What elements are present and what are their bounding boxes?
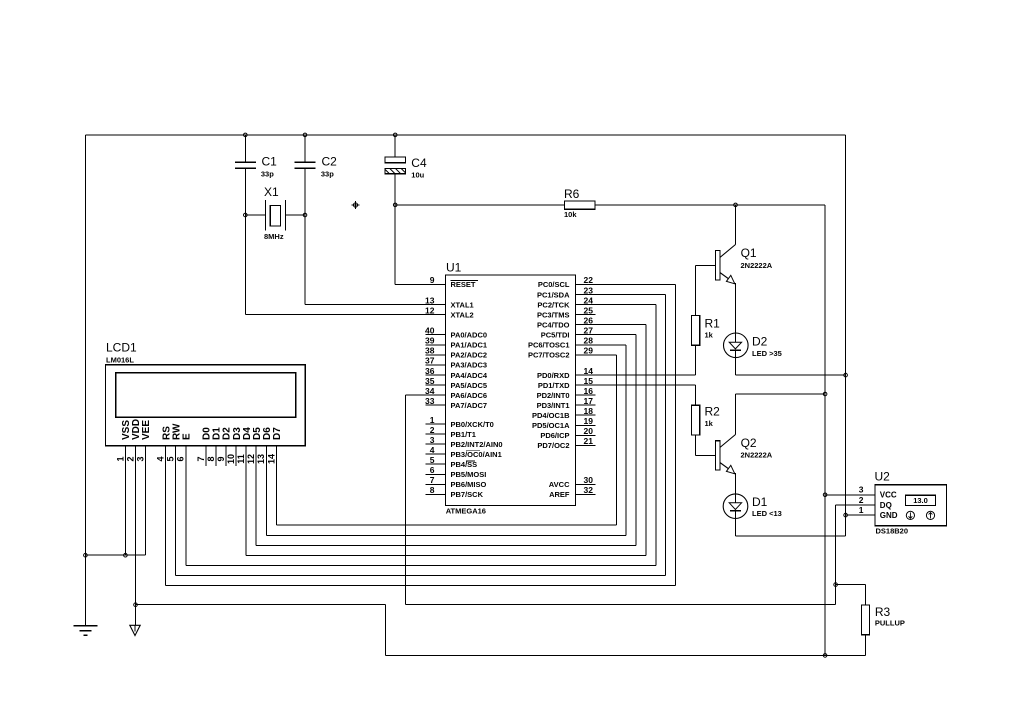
svg-text:LCD1: LCD1 [106, 341, 137, 355]
svg-text:PD2/INT0: PD2/INT0 [537, 391, 570, 400]
svg-text:24: 24 [584, 295, 594, 305]
wire Q2 collector to VCC [736, 393, 826, 395]
wire LCD VDD drop [135, 446, 137, 630]
svg-text:R2: R2 [705, 405, 721, 419]
svg-text:14: 14 [584, 366, 594, 376]
pin 25 PC3/TMS [576, 314, 596, 316]
svg-text:36: 36 [425, 366, 435, 376]
svg-text:32: 32 [584, 485, 594, 495]
wire bus D5 PC5 horizontal from chip [576, 334, 637, 336]
wire R6 to VCC corner [595, 204, 825, 206]
wire bus D4 PC4 right vertical [645, 325, 647, 556]
svg-text:PC1/SDA: PC1/SDA [537, 290, 570, 299]
svg-text:13: 13 [425, 295, 435, 305]
svg-text:XTAL2: XTAL2 [451, 310, 474, 319]
wire bus RW PC1 right vertical [665, 295, 667, 576]
pin 35 PA5/ADC5 [425, 384, 445, 386]
svg-text:9: 9 [430, 275, 435, 285]
wire R3 top to DQ [836, 584, 866, 586]
svg-text:6: 6 [176, 456, 186, 461]
svg-text:39: 39 [425, 336, 435, 346]
svg-text:10k: 10k [564, 210, 577, 219]
transistor Q2 [715, 441, 720, 470]
svg-text:PB4/SS: PB4/SS [451, 460, 478, 469]
junction X1-right [303, 213, 307, 217]
pin 3 PB2/INT2/AIN0 [425, 443, 445, 445]
svg-text:4: 4 [156, 456, 166, 461]
svg-text:XTAL1: XTAL1 [451, 300, 474, 309]
svg-text:PC0/SCL: PC0/SCL [538, 280, 570, 289]
svg-text:C4: C4 [411, 156, 427, 170]
svg-text:U2: U2 [875, 470, 891, 484]
svg-text:37: 37 [425, 356, 435, 366]
svg-text:33: 33 [425, 396, 435, 406]
svg-text:PA5/ADC5: PA5/ADC5 [451, 381, 488, 390]
wire LCD VEE drop [145, 446, 147, 556]
wire Q1 collector up [735, 205, 737, 245]
U2 temperature readout [905, 495, 935, 505]
LED D1 [723, 494, 748, 519]
svg-text:5: 5 [166, 456, 176, 461]
wire bus D4 PC4 horizontal from chip [576, 324, 646, 326]
wire GND left drop [84, 135, 86, 626]
pin 37 PA3/ADC3 [425, 364, 445, 366]
wire D1 to GND drop [734, 518, 736, 535]
wire bus RS PC0 LCD drop [165, 446, 167, 586]
svg-text:PB5/MOSI: PB5/MOSI [451, 470, 487, 479]
svg-text:11: 11 [236, 454, 246, 464]
junction U2 GND tee [844, 513, 848, 517]
svg-text:X1: X1 [264, 185, 279, 199]
svg-text:3: 3 [859, 485, 864, 495]
svg-text:PB6/MISO: PB6/MISO [451, 480, 487, 489]
pin 38 PA2/ADC2 [425, 354, 445, 356]
wire bus RS PC0 right vertical [675, 284, 677, 585]
resistor R1 [692, 316, 700, 346]
wire bus E PC2 bottom run [186, 564, 656, 566]
svg-text:PULLUP: PULLUP [875, 619, 905, 628]
pin 5 PB4/SS [425, 463, 445, 465]
pin 20 PD6/ICP [576, 434, 596, 436]
wire DQ bottom run [406, 604, 836, 606]
wire VSS-VEE ground link [85, 554, 145, 556]
pin 21 PD7/OC2 [576, 444, 596, 446]
junction U2 VCC tee [823, 493, 827, 497]
svg-text:ATMEGA16: ATMEGA16 [446, 507, 486, 516]
svg-text:2N2222A: 2N2222A [741, 261, 773, 270]
svg-text:2: 2 [430, 425, 435, 435]
svg-text:7: 7 [430, 475, 435, 485]
svg-text:Q1: Q1 [741, 246, 757, 260]
svg-text:C2: C2 [322, 154, 338, 168]
temperature sensor U2 body [875, 485, 947, 526]
wire LCD unconnected data stub [205, 446, 207, 466]
svg-text:U1: U1 [446, 261, 462, 275]
svg-text:12: 12 [425, 305, 435, 315]
resistor R3 [861, 605, 869, 635]
wire bus D6 PC6 bottom run [266, 534, 626, 536]
pin 8 PB7/SCK [425, 493, 445, 495]
svg-text:1: 1 [430, 415, 435, 425]
pin 17 PD3/INT1 [576, 404, 596, 406]
svg-text:10u: 10u [411, 171, 424, 180]
wire XTAL2 horiz [245, 314, 445, 316]
pin 19 PD5/OC1A [576, 424, 596, 426]
junction X1-left [244, 213, 248, 217]
svg-text:D7: D7 [272, 427, 283, 440]
wire VDD bottom run [385, 654, 825, 656]
pin 16 PD2/INT0 [576, 394, 596, 396]
power arrow symbol (VDD) [130, 625, 140, 635]
svg-text:LM016L: LM016L [106, 356, 134, 365]
svg-text:PB1/T1: PB1/T1 [451, 430, 476, 439]
wire LCD VSS drop [124, 446, 126, 556]
svg-text:1: 1 [115, 456, 125, 461]
pin 2 PB1/T1 [425, 433, 445, 435]
svg-text:PA4/ADC4: PA4/ADC4 [451, 371, 488, 380]
svg-text:PD1/TXD: PD1/TXD [538, 381, 570, 390]
svg-text:C1: C1 [262, 154, 278, 168]
svg-text:VCC: VCC [880, 491, 897, 500]
wire GND right drop [845, 135, 847, 536]
wire bus D6 PC6 right vertical [625, 345, 627, 536]
svg-text:35: 35 [425, 376, 435, 386]
svg-text:14: 14 [266, 454, 276, 464]
svg-text:12: 12 [246, 454, 256, 464]
svg-text:PA0/ADC0: PA0/ADC0 [451, 331, 488, 340]
svg-text:20: 20 [584, 426, 594, 436]
wire bus E PC2 horizontal from chip [576, 304, 656, 306]
wire LCD unconnected data stub [215, 446, 217, 466]
svg-text:33p: 33p [321, 170, 334, 179]
svg-text:PB7/SCK: PB7/SCK [451, 490, 484, 499]
wire reset node vertical [394, 205, 396, 285]
svg-text:PD7/OC2: PD7/OC2 [537, 441, 569, 450]
wire bus D6 PC6 horizontal from chip [576, 344, 627, 346]
svg-text:LED >35: LED >35 [752, 349, 782, 358]
capacitor C2 [304, 135, 306, 161]
wire bus RW PC1 LCD drop [175, 446, 177, 576]
wire GND top rail [85, 134, 845, 136]
svg-text:7: 7 [196, 456, 206, 461]
pin 32 AREF [576, 493, 596, 495]
svg-text:38: 38 [425, 346, 435, 356]
svg-text:PC7/TOSC2: PC7/TOSC2 [528, 351, 570, 360]
junction VCC bottom node [823, 654, 827, 658]
svg-text:4: 4 [430, 445, 435, 455]
svg-text:2N2222A: 2N2222A [741, 451, 773, 460]
pin 4 PB3/OC0/AIN1 [425, 453, 445, 455]
pin 33 PA7/ADC7 [425, 404, 445, 406]
wire U2 GND wire [846, 514, 875, 516]
svg-text:27: 27 [584, 326, 594, 336]
svg-text:21: 21 [584, 436, 594, 446]
wire LCD unconnected data stub [235, 446, 237, 466]
wire PD1 to R2 [576, 384, 696, 386]
pin 18 PD4/OC1B [576, 414, 596, 416]
ground symbol [73, 625, 97, 627]
svg-text:PA6/ADC6: PA6/ADC6 [451, 391, 488, 400]
pin 30 AVCC [576, 483, 596, 485]
svg-text:3: 3 [430, 435, 435, 445]
svg-text:25: 25 [584, 305, 594, 315]
svg-text:R3: R3 [875, 605, 891, 619]
origin marker cross [355, 201, 357, 209]
wire Q1 emitter down [735, 283, 737, 333]
svg-text:DS18B20: DS18B20 [876, 527, 909, 536]
svg-text:19: 19 [584, 416, 594, 426]
overline OC0 (pin PB3) [466, 450, 480, 452]
wire bus D6 PC6 LCD drop [265, 446, 267, 536]
svg-text:D2: D2 [752, 334, 768, 348]
wire bus E PC2 LCD drop [185, 446, 187, 566]
svg-text:8: 8 [206, 456, 216, 461]
svg-text:6: 6 [430, 465, 435, 475]
svg-text:RESET: RESET [451, 280, 476, 289]
wire DQ from pin34 [406, 394, 446, 396]
svg-text:PC4/TDO: PC4/TDO [537, 320, 570, 329]
svg-text:Q2: Q2 [741, 436, 757, 450]
svg-text:3: 3 [135, 456, 145, 461]
LCD display LCD1 body [106, 365, 306, 446]
LED D2 [724, 333, 749, 358]
wire bus E PC2 right vertical [655, 305, 657, 566]
wire VDD horizontal [136, 604, 386, 606]
svg-text:PB2/INT2/AIN0: PB2/INT2/AIN0 [451, 440, 503, 449]
svg-text:30: 30 [584, 475, 594, 485]
svg-text:13: 13 [256, 454, 266, 464]
capacitor C4 (polarized) [394, 135, 396, 157]
capacitor C1 [244, 135, 246, 161]
svg-text:PC2/TCK: PC2/TCK [537, 300, 570, 309]
wire DQ to U2 [836, 504, 875, 506]
pin 6 PB5/MOSI [425, 473, 445, 475]
overline RESET [451, 280, 479, 282]
wire bus RW PC1 horizontal from chip [576, 294, 666, 296]
pin 7 PB6/MISO [425, 483, 445, 485]
svg-text:D1: D1 [752, 495, 768, 509]
svg-text:LED <13: LED <13 [752, 509, 782, 518]
svg-text:16: 16 [584, 386, 594, 396]
svg-text:DQ: DQ [880, 501, 892, 510]
wire D1 gnd horizontal [735, 535, 845, 537]
wire bus RS PC0 bottom run [166, 585, 676, 587]
wire VDD step down [384, 605, 386, 656]
wire Q2 emitter down [735, 473, 737, 494]
svg-text:PA3/ADC3: PA3/ADC3 [451, 361, 488, 370]
wire U2 VCC wire [825, 494, 875, 496]
junction C2-rail [303, 133, 307, 137]
pin 36 PA4/ADC4 [425, 374, 445, 376]
svg-text:10: 10 [226, 454, 236, 464]
wire bus D7 PC7 LCD drop [275, 446, 277, 526]
svg-text:40: 40 [425, 326, 435, 336]
wire DQ right vertical [835, 505, 837, 605]
svg-text:PD3/INT1: PD3/INT1 [537, 401, 570, 410]
junction D2-GND [844, 373, 848, 377]
wire reset to R6 [395, 204, 564, 206]
svg-text:15: 15 [584, 376, 594, 386]
svg-text:PA2/ADC2: PA2/ADC2 [451, 351, 488, 360]
overline SS (pin PB4) [466, 460, 475, 462]
svg-text:5: 5 [430, 455, 435, 465]
junction Q1 collector tap [734, 203, 738, 207]
svg-text:1k: 1k [705, 419, 714, 428]
wire bus D4 PC4 bottom run [246, 554, 646, 556]
op-amp U1 body (ATMEGA16 MCU) [446, 275, 576, 506]
wire PD0 to R1 [576, 374, 696, 376]
svg-text:1k: 1k [705, 331, 714, 340]
svg-text:18: 18 [584, 406, 594, 416]
svg-text:PD5/OC1A: PD5/OC1A [532, 421, 570, 430]
junction VSS tee [124, 553, 128, 557]
wire Q2 collector up [735, 394, 737, 435]
wire D2 gnd horizontal [735, 374, 845, 376]
wire R2 to Q2 base [695, 435, 697, 455]
svg-text:E: E [182, 433, 193, 440]
svg-text:23: 23 [584, 285, 594, 295]
svg-text:VEE: VEE [141, 420, 152, 440]
svg-text:2: 2 [859, 495, 864, 505]
svg-text:29: 29 [584, 346, 594, 356]
wire VCC vertical [824, 205, 826, 656]
svg-text:PD4/OC1B: PD4/OC1B [532, 411, 570, 420]
svg-text:PA7/ADC7: PA7/ADC7 [451, 401, 488, 410]
svg-text:2: 2 [125, 456, 135, 461]
pin 39 PA1/ADC1 [425, 344, 445, 346]
pin 1 PB0/XCK/T0 [425, 423, 445, 425]
resistor R2 [692, 405, 700, 435]
svg-text:28: 28 [584, 336, 594, 346]
svg-text:1: 1 [859, 505, 864, 515]
svg-text:17: 17 [584, 396, 594, 406]
svg-text:9: 9 [216, 456, 226, 461]
svg-text:AREF: AREF [549, 490, 570, 499]
wire bus D7 PC7 bottom run [276, 524, 616, 526]
wire XTAL2 to pin 12 [244, 169, 246, 315]
svg-text:33p: 33p [261, 170, 274, 179]
wire bus RW PC1 bottom run [176, 575, 666, 577]
svg-text:8: 8 [430, 485, 435, 495]
junction C4-rail [393, 133, 397, 137]
U2 down button [906, 511, 914, 519]
wire DQ left vertical [405, 395, 407, 605]
svg-text:GND: GND [880, 511, 898, 520]
svg-text:PB3/OC0/AIN1: PB3/OC0/AIN1 [451, 450, 502, 459]
svg-text:PD0/RXD: PD0/RXD [537, 371, 570, 380]
transistor Q1 [715, 251, 720, 280]
wire reset to pin 9 [395, 283, 445, 285]
svg-text:R6: R6 [564, 187, 580, 201]
svg-text:R1: R1 [705, 317, 721, 331]
crystal X1 [245, 214, 265, 216]
junction C1-rail [244, 133, 248, 137]
wire bus D5 PC5 bottom run [256, 544, 636, 546]
junction VDD tee [134, 603, 138, 607]
U2 up button [926, 511, 934, 519]
wire bus D5 PC5 right vertical [635, 335, 637, 546]
svg-text:34: 34 [425, 386, 435, 396]
svg-text:13.0: 13.0 [913, 496, 928, 505]
pin 40 PA0/ADC0 [425, 334, 445, 336]
svg-text:8MHz: 8MHz [264, 232, 284, 241]
wire R3 bottom to VCC [865, 635, 867, 656]
wire bus D7 PC7 horizontal from chip [576, 354, 617, 356]
wire bus RS PC0 horizontal from chip [576, 283, 676, 285]
svg-text:AVCC: AVCC [549, 480, 570, 489]
junction Q2-VCC [823, 392, 827, 396]
junction gnd-vss [84, 553, 88, 557]
wire bus D5 PC5 LCD drop [255, 446, 257, 546]
wire LCD unconnected data stub [225, 446, 227, 466]
svg-text:PA1/ADC1: PA1/ADC1 [451, 341, 488, 350]
svg-text:22: 22 [584, 275, 594, 285]
svg-text:26: 26 [584, 315, 594, 325]
svg-text:PC6/TOSC1: PC6/TOSC1 [528, 341, 570, 350]
wire XTAL1 horiz [305, 304, 446, 306]
wire D2 to GND drop [734, 358, 736, 375]
svg-text:PD6/ICP: PD6/ICP [540, 431, 569, 440]
junction reset node [393, 203, 397, 207]
svg-text:PC5/TDI: PC5/TDI [541, 331, 570, 340]
resistor R6 [565, 201, 596, 209]
junction DQ/R3 tee [834, 583, 838, 587]
svg-text:PB0/XCK/T0: PB0/XCK/T0 [451, 420, 494, 429]
svg-text:PC3/TMS: PC3/TMS [537, 310, 570, 319]
wire R1 to Q1 base [695, 265, 697, 315]
wire bus D4 PC4 LCD drop [245, 446, 247, 556]
wire bus D7 PC7 right vertical [615, 355, 617, 525]
